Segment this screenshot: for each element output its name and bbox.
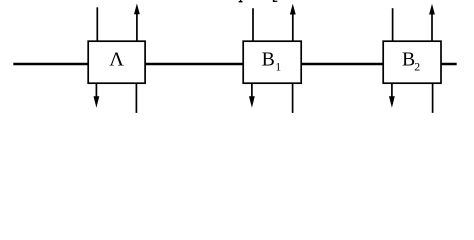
box B2 (383, 41, 441, 83)
wire top-left plain leg of Lambda box (96, 7, 98, 41)
box B1 (243, 41, 301, 83)
svg-text:1: 1 (275, 60, 281, 74)
cropped text fragment (letter stem foot) at top (239, 0, 243, 2)
box Lambda (88, 41, 145, 83)
arrowhead up at B2 box top-right leg (429, 4, 435, 15)
wire main horizontal line (13, 63, 456, 65)
arrowhead up at B1 box top-right leg (290, 4, 296, 15)
wire bottom-right plain leg of B2 box (432, 83, 434, 113)
arrowhead down at B1 box bottom-left leg (249, 96, 255, 108)
cropped text fragment (descender bottom) at top (273, 0, 278, 2)
arrowhead down at B2 box bottom-left leg (389, 96, 395, 108)
wire bottom-left leg of B2 box (with down arrow) (391, 83, 393, 100)
wire top-left plain leg of B2 box (392, 8, 394, 41)
wire top-right leg of B1 box (with up arrow) (292, 10, 294, 42)
wire bottom-right plain leg of Lambda box (135, 83, 137, 113)
wire bottom-left leg of Lambda box (with down arrow) (95, 83, 97, 100)
arrowhead down at Lambda box bottom-left leg (94, 96, 100, 108)
svg-text:2: 2 (414, 60, 420, 74)
wire bottom-left leg of B1 box (with down arrow) (251, 83, 253, 100)
wire top-right leg of B2 box (with up arrow) (431, 10, 433, 42)
svg-text:Λ: Λ (109, 49, 124, 71)
wire top-right leg of Lambda box (with up arrow) (136, 10, 138, 42)
svg-text:B: B (262, 49, 275, 71)
wire top-left plain leg of B1 box (252, 8, 254, 41)
arrowhead up at Lambda box top-right leg (134, 4, 140, 15)
wire bottom-right plain leg of B1 box (292, 83, 294, 113)
